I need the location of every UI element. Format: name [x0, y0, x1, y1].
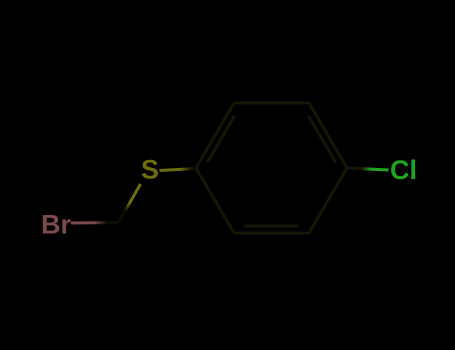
ring bond C1-C2 (double): [196, 103, 234, 168]
ring bond C5-C6 (double): [234, 232, 309, 235]
ring bond C3-C4 inner line: [308, 116, 335, 163]
svg-text:Br: Br: [41, 210, 71, 240]
bond S-ring: [160, 169, 197, 171]
bond CH2-S: [119, 184, 141, 223]
ring bond C4-C5: [309, 168, 347, 233]
ring bond C2-C3: [234, 102, 309, 105]
ring bond C1-C2 inner line: [207, 116, 234, 163]
ring bond C3-C4 (double): [309, 103, 347, 168]
ring bond C6-C1: [196, 168, 234, 233]
ring bond C5-C6 inner line: [245, 225, 299, 228]
svg-text:S: S: [141, 155, 159, 185]
benzene ring C1-C6: [196, 103, 347, 233]
bond ring-Cl: [347, 168, 389, 170]
bond Br-CH2: [71, 221, 119, 225]
svg-text:Cl: Cl: [390, 155, 417, 185]
